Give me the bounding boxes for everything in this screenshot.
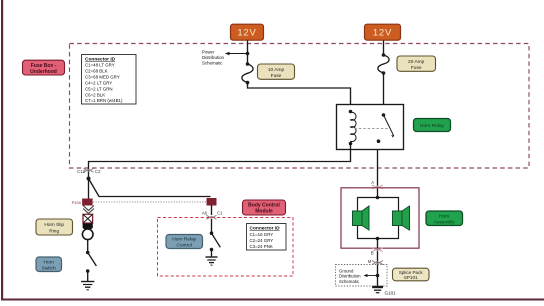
svg-text:C1: C1: [217, 211, 223, 216]
svg-text:Switch: Switch: [42, 265, 56, 271]
fuse box underhood dashed boundary: [70, 44, 530, 169]
page frame bottom border: [1, 299, 544, 301]
horn (right): [393, 206, 410, 230]
svg-text:Fuse: Fuse: [271, 73, 282, 79]
wire: relay output down to horn assembly: [377, 150, 379, 198]
svg-text:C5=2 LT GRN: C5=2 LT GRN: [85, 87, 113, 92]
wire: junction down to P100: [88, 179, 90, 200]
horn switch S1 (open blade): [86, 251, 97, 273]
node: horn feed split junction: [87, 177, 91, 181]
wire: arrow to power distribution schematic: [226, 53, 248, 55]
svg-text:C2=68 BLK: C2=68 BLK: [85, 69, 108, 74]
connector symbol at horn assembly output: [372, 248, 383, 252]
label: Horn Relay: [414, 119, 451, 132]
svg-text:A6: A6: [202, 211, 208, 216]
connector ID table (fuse box): [82, 55, 137, 105]
svg-text:Splice Pack: Splice Pack: [399, 270, 424, 275]
svg-text:Horn Slip: Horn Slip: [44, 222, 64, 228]
wire: junction to BCM (diagonal then horizontal): [89, 179, 211, 197]
label: Splice Pack SP101: [393, 268, 430, 281]
wire: connector to BCM driver switch: [211, 219, 213, 233]
svg-text:12V: 12V: [237, 28, 256, 39]
svg-text:Horn: Horn: [43, 259, 54, 265]
horn (left): [353, 206, 370, 230]
svg-text:C1=48 LT GRY: C1=48 LT GRY: [85, 63, 115, 68]
svg-text:Distribution: Distribution: [202, 55, 225, 60]
slip ring pass-through box with X: [83, 214, 93, 223]
connector symbol at horn assembly input: [372, 185, 383, 189]
horn slip ring circle: [82, 229, 93, 240]
text: Ground Distribution Schematic: [339, 269, 361, 284]
wire: slip ring to horn switch: [87, 240, 89, 253]
svg-text:C2: C2: [95, 169, 101, 174]
svg-text:Horn: Horn: [439, 213, 450, 219]
svg-text:C1=16 GRY: C1=16 GRY: [250, 232, 274, 237]
slip ring contact collar: [83, 223, 93, 227]
battery feed 12V box 1: [231, 24, 264, 40]
splice pack dotted boundary: [336, 265, 388, 287]
svg-text:SP101: SP101: [404, 275, 418, 280]
node: splice junction: [376, 274, 380, 278]
relay actuation dashed link: [355, 128, 390, 130]
svg-text:Ring: Ring: [49, 229, 59, 235]
svg-text:Power: Power: [202, 50, 215, 55]
svg-text:A: A: [371, 180, 374, 185]
dotted tie line P100 to BCM connector: [93, 201, 207, 203]
arrow chevron below P100: [83, 209, 94, 214]
wire: BCM switch to internal ground: [211, 250, 213, 257]
svg-text:C4=2 LT GRY: C4=2 LT GRY: [85, 81, 112, 86]
svg-text:C6=2 BLK: C6=2 BLK: [85, 93, 105, 98]
svg-text:Connector ID: Connector ID: [250, 226, 281, 232]
svg-text:Schematic: Schematic: [202, 61, 223, 66]
relay switch contact: [377, 113, 394, 143]
label: Horn Assembly: [426, 211, 463, 226]
svg-text:C2=24 GRY: C2=24 GRY: [250, 238, 274, 243]
connector symbol M: [372, 261, 383, 265]
svg-text:C3=24 PNK: C3=24 PNK: [250, 244, 273, 249]
relay K1 box: [337, 105, 404, 150]
wire: splice pack feed down to ground bar: [377, 265, 379, 287]
svg-text:C7=1 BRN (w/4B1): C7=1 BRN (w/4B1): [85, 98, 123, 103]
relay coil: [349, 110, 356, 146]
connector C12/C2 pass-through symbol: [77, 168, 101, 174]
wire: horn switch to ground: [87, 271, 89, 281]
connector ID table (BCM): [247, 224, 287, 251]
wire: fuse1 to relay coil (down, right, down): [248, 83, 351, 112]
label: Horn Relay Control: [166, 235, 203, 249]
horn assembly internal wiring loop: [358, 196, 399, 241]
connector A6/C1 symbol: [202, 211, 223, 220]
label: 20 Amp Fuse: [397, 56, 436, 71]
svg-text:Fuse: Fuse: [411, 65, 422, 71]
svg-text:C12: C12: [77, 169, 85, 174]
label: Horn Slip Ring: [36, 219, 73, 235]
label: 10 Amp Fuse: [258, 64, 295, 79]
wire: horn assembly to splice: [377, 239, 379, 266]
wire: relay coil low side down-left-out of fuse box: [89, 144, 351, 177]
node: power distribution tap junction: [246, 52, 250, 56]
page frame left border: [1, 0, 3, 301]
svg-text:Schematic: Schematic: [339, 279, 360, 284]
svg-text:Underhood: Underhood: [30, 69, 57, 75]
wire: fuse2 down to relay switch contact: [383, 73, 385, 115]
ground G101 symbol: [372, 287, 383, 293]
battery feed 12V box 2: [365, 24, 401, 40]
fuse F1 10A (S-curve between terminal dots): [242, 62, 253, 84]
svg-text:Horn Relay: Horn Relay: [172, 237, 197, 243]
svg-text:12V: 12V: [373, 28, 392, 39]
BCM horn relay driver switch: [210, 231, 221, 251]
label: Horn Switch: [36, 257, 62, 272]
label: Fuse Box - Underhood: [23, 60, 65, 75]
svg-text:10 Amp: 10 Amp: [268, 67, 285, 73]
wire: arrow to ground distribution schematic: [365, 275, 378, 277]
svg-text:20 Amp: 20 Amp: [408, 59, 425, 65]
svg-text:Assembly: Assembly: [434, 219, 455, 225]
svg-text:M: M: [368, 259, 372, 264]
BCM dashed boundary: [158, 218, 294, 277]
label: Body Control Module: [243, 200, 286, 215]
horn assembly boundary box: [341, 188, 419, 248]
wire: block down to BCM connector: [211, 205, 213, 215]
wire: 12V box2 down to fuse 2: [383, 41, 385, 56]
svg-text:Module: Module: [255, 209, 273, 215]
connector P100 block: [72, 199, 93, 206]
svg-text:P100: P100: [72, 200, 82, 205]
connector block at BCM input: [207, 198, 217, 206]
text: Power Distribution Schematic: [202, 50, 225, 66]
ground: BCM internal ground: [206, 257, 218, 265]
svg-text:G101: G101: [385, 290, 397, 295]
svg-text:C3=68 MED GRY: C3=68 MED GRY: [85, 75, 120, 80]
wire: 12V box1 down to fuse 1: [247, 41, 249, 65]
ground: steering column ground: [81, 282, 94, 290]
fuse F2 20A: [378, 53, 389, 75]
svg-text:Horn Relay: Horn Relay: [420, 123, 445, 129]
svg-text:Control: Control: [176, 243, 191, 249]
